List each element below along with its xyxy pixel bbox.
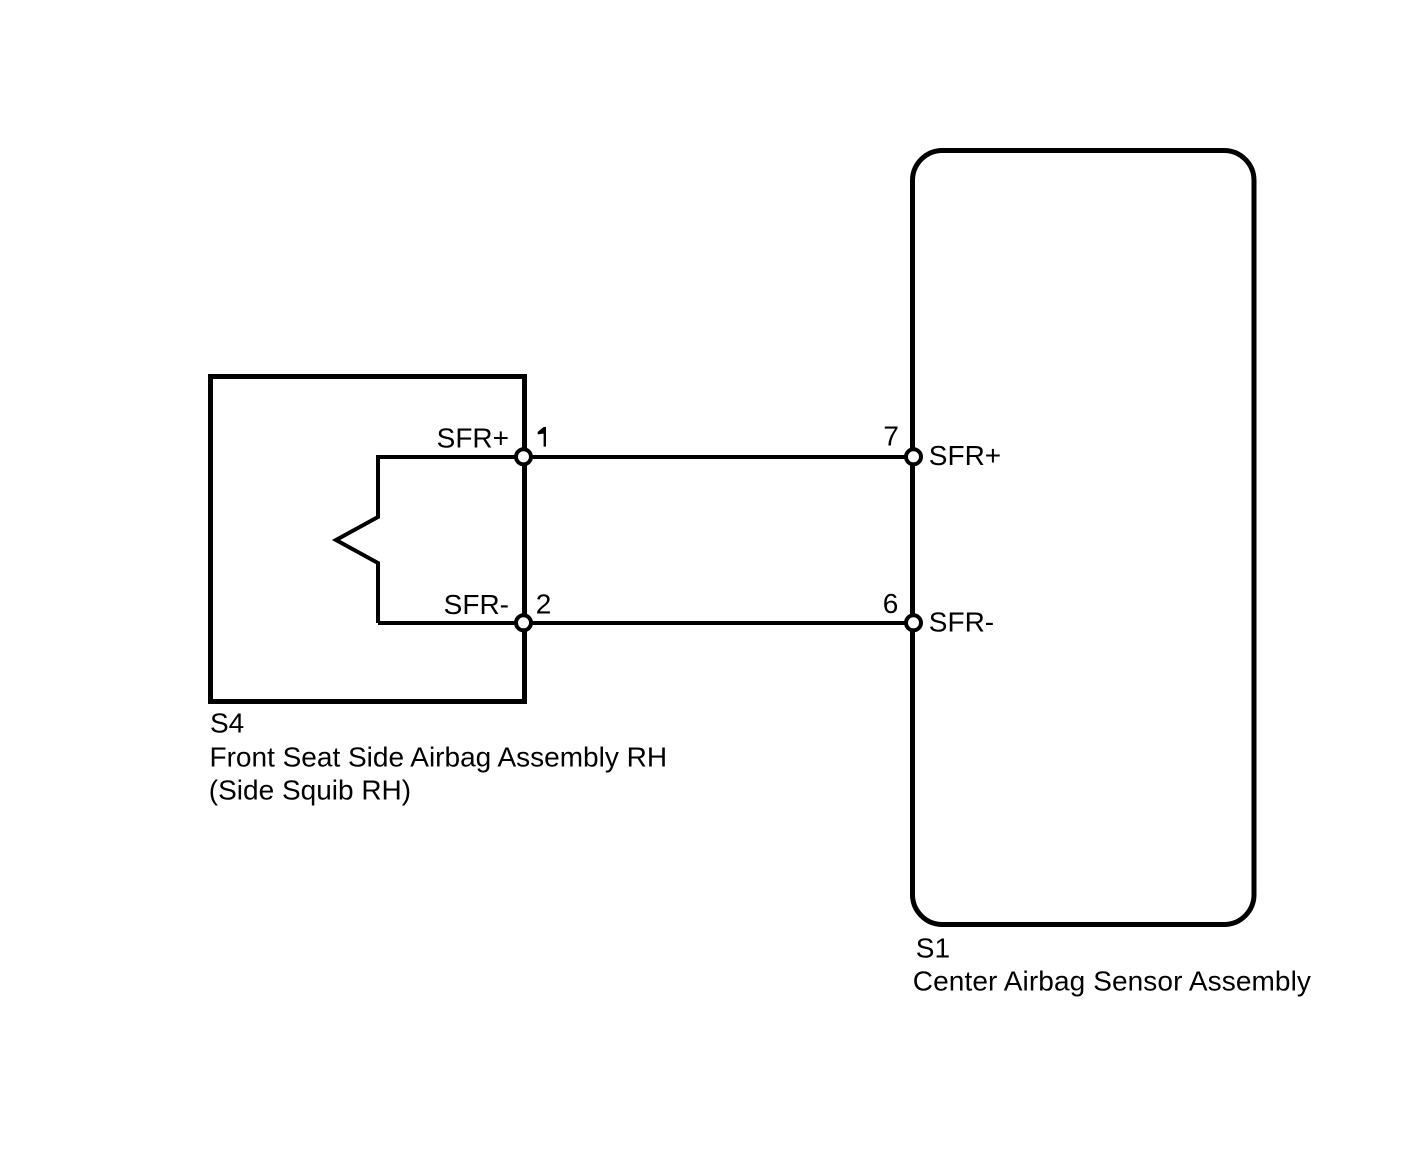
svg-text:Center Airbag Sensor Assembly: Center Airbag Sensor Assembly (913, 966, 1311, 997)
svg-text:SFR+: SFR+ (437, 422, 509, 453)
svg-text:2: 2 (536, 589, 552, 620)
svg-text:7: 7 (883, 420, 899, 451)
svg-text:SFR-: SFR- (444, 589, 509, 620)
svg-text:(Side Squib RH): (Side Squib RH) (209, 775, 411, 806)
svg-text:S1: S1 (916, 932, 950, 963)
svg-text:SFR+: SFR+ (929, 440, 1001, 471)
svg-text:S4: S4 (210, 708, 244, 739)
svg-text:6: 6 (883, 588, 899, 619)
svg-text:Front Seat Side Airbag Assembl: Front Seat Side Airbag Assembly RH (210, 741, 668, 772)
svg-text:SFR-: SFR- (929, 607, 994, 638)
